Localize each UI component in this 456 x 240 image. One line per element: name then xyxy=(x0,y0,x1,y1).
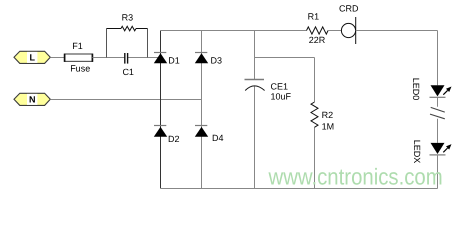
wire F1 to C1 xyxy=(92,57,124,59)
wire R3 branch right vertical xyxy=(147,29,149,58)
wire R1 to CRD xyxy=(328,30,341,32)
wire C1 to bridge xyxy=(128,57,161,59)
diode D1 xyxy=(154,53,167,64)
wire bridge right column xyxy=(201,31,203,189)
svg-text:10uF: 10uF xyxy=(271,92,292,102)
svg-text:22R: 22R xyxy=(309,35,326,45)
LED LED0 xyxy=(430,85,452,97)
svg-text:F1: F1 xyxy=(72,41,83,51)
svg-text:Fuse: Fuse xyxy=(70,63,90,73)
svg-text:1M: 1M xyxy=(322,122,335,132)
svg-text:D3: D3 xyxy=(211,55,223,65)
svg-text:LEDX: LEDX xyxy=(412,140,422,164)
svg-text:D1: D1 xyxy=(168,55,180,65)
svg-text:CE1: CE1 xyxy=(271,81,289,91)
svg-text:N: N xyxy=(29,95,36,105)
port L xyxy=(14,51,50,63)
svg-text:CRD: CRD xyxy=(339,4,359,14)
diode D2 xyxy=(154,126,167,137)
resistor R3 xyxy=(121,26,136,31)
wire bottom rail xyxy=(161,188,438,190)
wire corner down to LED0 xyxy=(437,31,439,86)
wire break to LEDX xyxy=(437,119,439,143)
wire CE1 branch upper xyxy=(254,31,256,80)
wire CE1 to R2 xyxy=(255,57,315,59)
wire LEDX to bottom rail xyxy=(437,155,439,189)
wire R2 upper xyxy=(314,58,316,103)
diode D3 xyxy=(195,53,208,64)
svg-text:D4: D4 xyxy=(212,133,224,143)
fuse F1 xyxy=(65,54,93,62)
svg-text:LED0: LED0 xyxy=(411,78,421,101)
svg-text:C1: C1 xyxy=(122,67,134,77)
svg-text:D2: D2 xyxy=(168,134,180,144)
svg-text:R2: R2 xyxy=(322,110,334,120)
wire N to bridge xyxy=(50,99,201,101)
resistor R2 xyxy=(311,102,318,127)
resistor R1 xyxy=(307,27,329,34)
wire CRD to corner xyxy=(356,30,438,32)
wire top rail xyxy=(161,30,307,32)
wire R3 branch top right xyxy=(136,28,148,30)
LED LEDX xyxy=(430,143,452,155)
diode D4 xyxy=(195,126,208,137)
svg-text:R1: R1 xyxy=(308,11,320,21)
diode CRD xyxy=(341,17,355,44)
svg-text:L: L xyxy=(29,53,35,63)
capacitor CE1 xyxy=(245,80,265,91)
wire LED0 to break xyxy=(437,97,439,106)
wire bridge left column xyxy=(160,31,162,189)
wire L to F1 xyxy=(50,57,64,59)
wire R3 branch top left xyxy=(107,28,122,30)
svg-text:R3: R3 xyxy=(122,12,134,22)
port N xyxy=(14,93,50,105)
wire CE1 branch lower xyxy=(254,87,256,189)
wire R3 branch left vertical xyxy=(106,29,108,58)
wire R2 lower xyxy=(314,127,316,188)
capacitor C1 xyxy=(125,53,128,64)
break symbol xyxy=(430,107,445,118)
svg-text:www.cntronics.com: www.cntronics.com xyxy=(268,164,443,190)
